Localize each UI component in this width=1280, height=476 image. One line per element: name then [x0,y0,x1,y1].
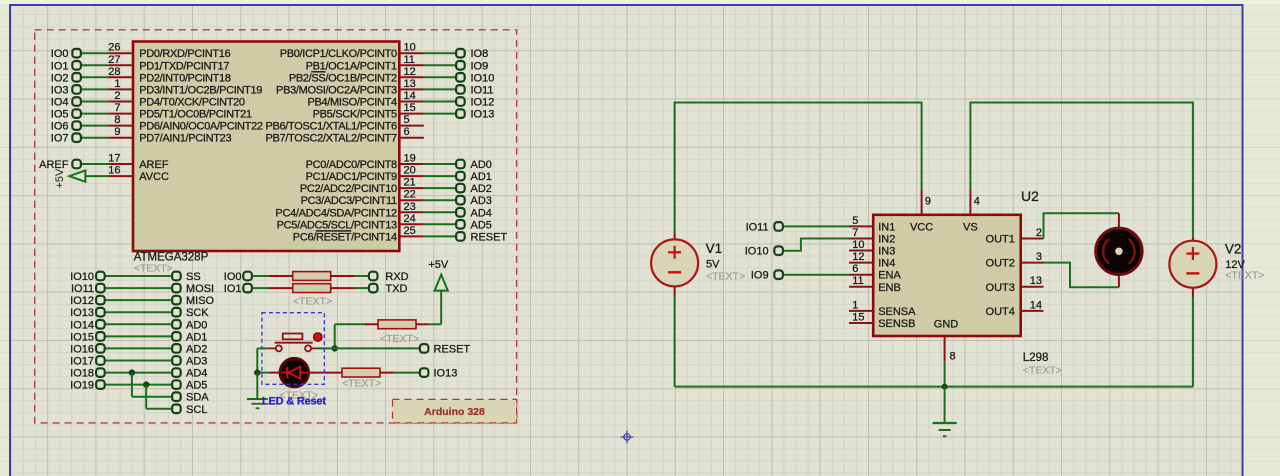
wire bottom ground rail [675,296,1193,387]
junction dot LED row [254,369,260,375]
svg-text:IO1: IO1 [51,60,69,72]
terminal IO14 [70,319,105,331]
svg-text:IO12: IO12 [70,295,94,307]
pin 24 PC5 with terminal AD5 [277,213,492,232]
ground symbol main [933,423,957,436]
svg-text:IO18: IO18 [70,368,94,380]
svg-text:SENSB: SENSB [878,318,915,330]
terminal RESET [420,343,471,355]
terminal IO11 [746,221,783,233]
svg-text:9: 9 [114,126,120,138]
svg-text:<TEXT>: <TEXT> [706,271,745,283]
battery V2 12V [1169,237,1216,298]
terminal IO10 [70,271,105,283]
wire rail to ground symbol [944,387,946,423]
svg-text:IO0: IO0 [224,271,242,283]
svg-text:IO14: IO14 [70,319,94,331]
svg-text:11: 11 [404,54,415,66]
svg-text:IO13: IO13 [70,307,94,319]
wire V1 top rail to VCC [675,103,922,234]
svg-text:AD3: AD3 [471,195,492,207]
pin 3 OUT2 [986,251,1044,270]
svg-text:PD3/INT1/OC2B/PCINT19: PD3/INT1/OC2B/PCINT19 [139,84,262,96]
LED D1 [257,358,308,387]
pin 21 PC2 with terminal AD2 [300,177,492,196]
svg-text:23: 23 [404,201,416,213]
svg-text:AD2: AD2 [471,183,492,195]
pin 12 PB2 with terminal IO10 [289,66,495,85]
terminal IO1 [224,283,252,295]
svg-text:IO19: IO19 [70,380,94,392]
svg-text:ENA: ENA [878,270,901,282]
svg-text:19: 19 [404,153,416,165]
svg-text:U2: U2 [1021,188,1039,204]
svg-text:OUT3: OUT3 [986,282,1015,294]
svg-text:PB0/ICP1/CLKO/PCINT0: PB0/ICP1/CLKO/PCINT0 [280,48,397,60]
svg-text:PD7/AIN1/PCINT23: PD7/AIN1/PCINT23 [139,133,231,145]
svg-text:3: 3 [1036,251,1042,263]
svg-text:PC4/ADC4/SDA/PCINT12: PC4/ADC4/SDA/PCINT12 [275,207,397,219]
pin 11 ENB [849,275,901,294]
svg-text:1: 1 [114,78,120,90]
terminal IO0 [224,271,252,283]
svg-text:AD4: AD4 [471,207,492,219]
svg-text:IN4: IN4 [878,258,895,270]
push button [268,333,322,352]
svg-text:10: 10 [404,42,416,54]
pin 12 IN4 [849,251,895,270]
pin 13 OUT3 [986,275,1044,294]
svg-text:5V: 5V [706,259,720,271]
resistor R3 reset pull-up [335,320,442,349]
svg-text:OUT4: OUT4 [986,306,1015,318]
terminal IO16 [70,343,105,355]
svg-text:ENB: ENB [878,282,901,294]
terminal SCL [172,404,207,416]
wire RESET net with junction [332,345,420,351]
svg-text:TXD: TXD [385,283,407,295]
pin 1 PD3/INT1/OC2B/PCINT19 with terminal IO3 [51,78,263,97]
terminal IO17 [70,356,105,368]
svg-text:IO11: IO11 [71,283,94,295]
svg-text:PB6/TOSC1/XTAL1/PCINT6: PB6/TOSC1/XTAL1/PCINT6 [265,121,397,133]
svg-text:14: 14 [1030,299,1042,311]
svg-text:V2: V2 [1225,242,1242,257]
wire IO11 [105,287,171,289]
svg-text:MOSI: MOSI [186,283,214,295]
svg-text:IO5: IO5 [51,109,69,121]
wire IO17 [105,360,171,362]
label <TEXT> for reset resistor [380,333,419,345]
pin 22 PC3 with terminal AD3 [301,189,492,208]
svg-text:26: 26 [108,42,120,54]
svg-text:SCK: SCK [186,307,209,319]
svg-text:PC6/RESET/PCINT14: PC6/RESET/PCINT14 [293,231,397,243]
svg-text:<TEXT>: <TEXT> [1225,270,1264,282]
svg-text:IN2: IN2 [878,234,895,246]
pin 8 GND bottom [934,318,959,362]
svg-text:IO17: IO17 [70,356,94,368]
terminal TXD [369,283,408,295]
wire IO10 [105,275,171,277]
svg-text:PB2/SS/OC1B/PCINT2: PB2/SS/OC1B/PCINT2 [289,72,397,84]
Arduino 328 subcircuit dashed boundary [35,30,517,423]
wire GND pin to rail [944,361,946,386]
svg-text:13: 13 [1030,275,1042,287]
svg-text:IO10: IO10 [70,271,94,283]
pin 7 PD5/T1/OC0B/PCINT21 with terminal IO5 [51,102,252,121]
svg-text:13: 13 [404,78,416,90]
label V1 [706,241,746,283]
svg-text:PB1/OC1A/PCINT1: PB1/OC1A/PCINT1 [306,60,397,72]
svg-text:IO10: IO10 [745,246,769,258]
label <TEXT> for LED resistor [342,378,381,390]
terminal SCK [172,307,209,319]
svg-text:AD5: AD5 [186,380,207,392]
pin 14 OUT4 [986,299,1044,318]
svg-text:VCC: VCC [910,221,933,233]
svg-text:PB7/TOSC2/XTAL2/PCINT7: PB7/TOSC2/XTAL2/PCINT7 [265,133,397,145]
terminal AD1 [172,331,207,343]
svg-text:PC2/ADC2/PCINT10: PC2/ADC2/PCINT10 [300,183,397,195]
svg-text:IO15: IO15 [70,331,94,343]
svg-text:2: 2 [1036,227,1042,239]
motor top pin [1118,213,1120,228]
pin 7 IN2 [849,227,895,246]
terminal SDA [172,392,209,404]
wire OUT1 to motor top [1044,213,1119,238]
svg-text:+5V: +5V [54,168,66,189]
pin 15 PB5 with terminal IO13 [313,102,495,121]
svg-text:PD2/INT0/PCINT18: PD2/INT0/PCINT18 [139,72,231,84]
svg-text:AD0: AD0 [186,319,207,331]
svg-text:PD1/TXD/PCINT17: PD1/TXD/PCINT17 [139,60,229,72]
wire IO13 [105,311,171,313]
svg-text:IO9: IO9 [471,60,489,72]
svg-text:15: 15 [404,102,416,114]
svg-text:22: 22 [404,189,416,201]
terminal IO15 [70,331,105,343]
terminal AD4 [172,368,207,380]
wire OUT2 to motor bottom [1044,263,1119,288]
svg-text:LED & Reset: LED & Reset [262,396,326,408]
pin 11 PB1 with terminal IO9 [306,54,489,73]
svg-text:<TEXT>: <TEXT> [342,378,381,390]
svg-text:RXD: RXD [385,271,408,283]
Arduino 328 title box [393,399,517,423]
svg-text:PB5/SCK/PCINT5: PB5/SCK/PCINT5 [313,109,397,121]
label ATMEGA328P [134,252,209,275]
svg-text:SENSA: SENSA [878,306,916,318]
terminal AD0 [172,319,207,331]
pin 6 PB7 (unconnected) [265,126,423,145]
svg-text:8: 8 [950,351,956,363]
svg-text:12: 12 [404,66,416,78]
pin 15 SENSB [849,312,915,331]
IC U2 L298 body [873,215,1021,336]
svg-text:16: 16 [108,165,120,177]
svg-text:14: 14 [404,90,416,102]
svg-text:L298: L298 [1023,352,1049,364]
svg-text:AREF: AREF [139,159,169,171]
svg-text:OUT1: OUT1 [986,234,1015,246]
svg-text:PD4/T0/XCK/PCINT20: PD4/T0/XCK/PCINT20 [139,97,245,109]
terminal MOSI [172,283,214,295]
IC U1 ATMEGA328P body [133,42,399,252]
wire LED row to ground [256,373,258,399]
pin 25 PC6 with terminal RESET [293,225,508,244]
wire button right to RESET junction [318,347,335,349]
LED and Reset dashed blue group box [262,313,324,385]
pin 2 OUT1 [986,227,1044,246]
terminal IO19 [70,380,105,392]
svg-text:SCL: SCL [186,404,207,416]
terminal IO10 [745,246,783,258]
terminal AD5 [172,380,207,392]
label L298 [1023,352,1062,377]
svg-text:<TEXT>: <TEXT> [293,296,332,308]
svg-text:IO12: IO12 [471,97,495,109]
svg-text:PD5/T1/OC0B/PCINT21: PD5/T1/OC0B/PCINT21 [139,109,252,121]
svg-text:2: 2 [114,90,120,102]
terminal IO13 [420,368,458,380]
svg-text:<TEXT>: <TEXT> [1023,365,1062,377]
pin 10 IN3 [849,239,895,258]
svg-text:IN3: IN3 [878,246,895,258]
svg-text:+5V: +5V [428,259,449,271]
wire IO16 [105,347,171,349]
svg-text:IO0: IO0 [51,48,69,60]
pin 9 PD7/AIN1/PCINT23 with terminal IO7 [51,126,232,145]
svg-text:21: 21 [404,177,416,189]
svg-text:5: 5 [404,114,410,126]
motor M1 [1096,228,1142,274]
svg-text:9: 9 [925,196,931,208]
pin 14 PB4 with terminal IO12 [307,90,494,109]
pin 27 PD1/TXD/PCINT17 with terminal IO1 [51,54,230,73]
wire IO9 to ENA [784,274,849,276]
resistor R4 LED-IO13 [309,368,419,377]
svg-text:GND: GND [934,318,959,330]
svg-text:AD4: AD4 [186,368,207,380]
svg-text:AD2: AD2 [186,343,207,355]
terminal AD3 [172,356,207,368]
pin 16 AVCC with +5V power arrow [54,165,169,189]
svg-text:11: 11 [852,275,863,287]
pin 4 VS top [963,190,980,233]
svg-text:PC5/ADC5/SCL/PCINT13: PC5/ADC5/SCL/PCINT13 [277,219,397,231]
label <TEXT> for RXD/TXD resistors [293,296,332,308]
svg-text:IO13: IO13 [434,368,458,380]
wire IO18 to SDA with junction [129,369,172,396]
svg-text:PB3/MOSI/OC2A/PCINT3: PB3/MOSI/OC2A/PCINT3 [276,84,397,96]
svg-text:OUT2: OUT2 [986,258,1015,270]
label LED & Reset [262,396,326,408]
svg-text:17: 17 [108,153,120,165]
svg-text:IO16: IO16 [70,343,94,355]
pin 13 PB3 with terminal IO11 [276,78,493,97]
svg-text:15: 15 [852,312,864,324]
svg-text:Arduino 328: Arduino 328 [424,406,485,418]
wire VS top rail to V2 [970,103,1193,237]
svg-text:PB4/MISO/PCINT4: PB4/MISO/PCINT4 [307,97,397,109]
svg-text:VS: VS [963,221,978,233]
svg-text:5: 5 [852,215,858,227]
svg-text:PC3/ADC3/PCINT11: PC3/ADC3/PCINT11 [301,195,397,207]
svg-text:IN1: IN1 [878,221,895,233]
svg-text:27: 27 [108,54,120,66]
terminal RXD [369,271,409,283]
battery V1 5V [651,234,698,297]
svg-text:IO11: IO11 [746,221,769,233]
svg-text:AD0: AD0 [471,159,492,171]
pin 5 IN1 [849,215,895,234]
wire IO19 [105,384,171,386]
origin marker [621,431,634,444]
svg-text:IO4: IO4 [51,97,69,109]
terminal IO18 [70,368,105,380]
pin 26 PD0/RXD/PCINT16 with terminal IO0 [51,42,231,61]
wire button left to ground rail [257,348,267,372]
svg-text:6: 6 [404,126,410,138]
svg-text:8: 8 [114,114,120,126]
pin 20 PC1 with terminal AD1 [306,165,492,184]
svg-text:10: 10 [852,239,864,251]
svg-text:7: 7 [114,102,120,114]
wire IO19 to SCL with junction [143,381,171,408]
svg-text:24: 24 [404,213,416,225]
resistor R2 IO1-TXD [252,284,368,293]
terminal AD2 [172,343,207,355]
svg-text:IO7: IO7 [51,133,69,145]
pin 23 PC4 with terminal AD4 [275,201,491,220]
resistor R1 IO0-RXD [252,272,368,281]
svg-text:SS: SS [186,271,201,283]
svg-text:PC0/ADC0/PCINT8: PC0/ADC0/PCINT8 [306,159,397,171]
svg-text:12: 12 [852,251,864,263]
motor bottom pin [1118,275,1120,288]
pin 9 VCC top [910,190,933,233]
svg-text:RESET: RESET [434,343,471,355]
label <TEXT> hidden under LED & Reset [279,390,318,402]
svg-text:IO13: IO13 [471,109,495,121]
wire IO18 [105,372,171,374]
wire IO11 to IN1 [784,225,849,227]
svg-text:AD1: AD1 [186,331,207,343]
svg-text:IO10: IO10 [471,72,495,84]
terminal IO12 [70,295,105,307]
svg-text:7: 7 [852,227,858,239]
svg-text:IO8: IO8 [471,48,489,60]
svg-text:AD3: AD3 [186,356,207,368]
terminal IO13 [70,307,105,319]
svg-text:IO9: IO9 [751,270,769,282]
ground symbol left [247,399,268,408]
svg-text:PD6/AIN0/OC0A/PCINT22: PD6/AIN0/OC0A/PCINT22 [139,121,263,133]
svg-text:28: 28 [108,66,120,78]
svg-text:25: 25 [404,225,416,237]
svg-text:1: 1 [852,299,858,311]
pin 28 PD2/INT0/PCINT18 with terminal IO2 [51,66,231,85]
svg-text:AVCC: AVCC [139,171,169,183]
svg-text:4: 4 [974,196,980,208]
svg-text:SDA: SDA [186,392,209,404]
pin 10 PB0 with terminal IO8 [280,42,489,61]
pin 6 ENA [849,263,901,282]
label U2 [1021,188,1039,204]
svg-text:6: 6 [852,263,858,275]
svg-text:IO6: IO6 [51,121,69,133]
svg-text:V1: V1 [706,241,723,256]
wire IO10 to IN2 [784,239,849,251]
terminal SS [172,271,201,283]
wire IO15 [105,335,171,337]
svg-text:IO11: IO11 [471,84,494,96]
svg-text:MISO: MISO [186,295,215,307]
pin 2 PD4/T0/XCK/PCINT20 with terminal IO4 [51,90,245,109]
terminal MISO [172,295,214,307]
svg-text:IO3: IO3 [51,84,69,96]
svg-text:AD1: AD1 [471,171,492,183]
svg-text:<TEXT>: <TEXT> [134,263,173,275]
svg-text:IO1: IO1 [224,283,242,295]
svg-text:PC1/ADC1/PCINT9: PC1/ADC1/PCINT9 [306,171,397,183]
svg-text:PD0/RXD/PCINT16: PD0/RXD/PCINT16 [139,48,230,60]
pin 19 PC0 with terminal AD0 [306,153,492,172]
pin 5 PB6 (unconnected) [265,114,423,133]
pin 1 SENSA [849,299,916,318]
wire IO14 [105,323,171,325]
power +5V arrow [428,259,449,324]
terminal IO11 [71,283,105,295]
wire IO12 [105,299,171,301]
svg-text:RESET: RESET [471,231,508,243]
svg-text:AD5: AD5 [471,219,492,231]
pin 17 AREF with terminal AREF [39,153,169,172]
pin 8 PD6/AIN0/OC0A/PCINT22 with terminal IO6 [51,114,263,133]
svg-text:IO2: IO2 [51,72,69,84]
label V2 [1225,242,1265,282]
junction dot ground rail [942,384,948,390]
svg-text:<TEXT>: <TEXT> [380,333,419,345]
terminal IO9 [751,270,783,282]
svg-text:20: 20 [404,165,416,177]
